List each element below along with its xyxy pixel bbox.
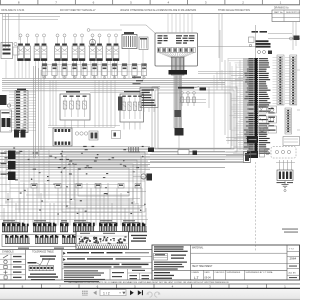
bottom terminal row B — [2, 235, 147, 249]
inset panel view — [76, 232, 129, 250]
terminal strip TB1 — [7, 66, 44, 158]
key switch S11 — [249, 25, 301, 58]
svg-text:DRAWING No: DRAWING No — [274, 7, 289, 10]
governor coil box K13 — [118, 77, 144, 123]
svg-text:2964: 2964 — [290, 257, 297, 261]
solenoid group L1 — [178, 87, 209, 109]
main harness ladder — [228, 58, 270, 154]
gauge M1 — [88, 39, 97, 46]
svg-text:SUPERSEDES: SUPERSEDES — [227, 272, 241, 274]
tolerance table — [28, 250, 63, 281]
svg-text:DRAWN: DRAWN — [192, 271, 200, 274]
diode pack D2 with ground — [276, 160, 295, 192]
sender unit B1 — [139, 37, 148, 80]
connector grid J1 — [273, 55, 297, 105]
title block — [152, 245, 300, 280]
resistor pack R1 — [87, 29, 137, 78]
svg-text:09-04: 09-04 — [205, 276, 212, 279]
flasher unit U3 — [14, 124, 121, 146]
legend box — [140, 88, 158, 113]
sender row B2-B11 — [42, 64, 147, 79]
svg-text:TOLERANCE TABLE: TOLERANCE TABLE — [32, 251, 54, 254]
ECU feed wires — [168, 14, 296, 62]
general notes — [62, 252, 152, 282]
svg-text:1 / 2: 1 / 2 — [103, 291, 110, 295]
svg-text:IONS ARE IN C.M.M.: IONS ARE IN C.M.M. — [1, 9, 25, 12]
control unit U1 — [120, 25, 262, 66]
sheet zone strip bottom — [0, 284, 300, 289]
svg-text:L.T: L.T — [194, 276, 199, 280]
power bus wires — [2, 30, 250, 135]
svg-text:A.A. BR: A.A. BR — [289, 272, 297, 275]
relay modules K11 K12 — [226, 136, 296, 158]
fuse box F1 — [1, 42, 19, 78]
svg-text:SYMBOLS: SYMBOLS — [2, 251, 14, 254]
svg-text:Y Y.X: Y Y.X — [289, 249, 294, 251]
coil box stubs — [48, 92, 150, 129]
property note row — [0, 280, 300, 284]
viewer toolbar — [0, 289, 300, 300]
connector J2 — [129, 147, 198, 181]
symbols legend table — [0, 250, 152, 281]
relay coil box K9 — [60, 91, 90, 120]
svg-text:THE DRAWING IS THE PROPERTY OF: THE DRAWING IS THE PROPERTY OF J.C.BAMFO… — [68, 281, 229, 284]
svg-text:DO NOT IDENTIFY MANUALLY: DO NOT IDENTIFY MANUALLY — [60, 9, 96, 12]
svg-text:PART No: PART No — [274, 11, 283, 14]
header notes row — [0, 9, 272, 14]
connector grid J4 — [285, 108, 292, 134]
svg-text:UNLESS OTHERWISE NOTED ALL DIM: UNLESS OTHERWISE NOTED ALL DIMENSIONS AR… — [120, 9, 197, 12]
wiring mesh — [0, 146, 250, 226]
sheet zone strip top — [0, 0, 300, 5]
wire bundle mid — [150, 152, 251, 163]
revision table — [272, 7, 301, 22]
wire feed left — [3, 14, 61, 48]
dashed wire drop — [255, 162, 257, 252]
svg-text:MATERIAL: MATERIAL — [192, 247, 204, 250]
fuse modules F2 — [1, 151, 16, 181]
relay bank K10 — [258, 106, 300, 146]
diode module D1 — [0, 95, 12, 132]
svg-text:HEAT TREATMENT: HEAT TREATMENT — [192, 265, 213, 268]
harness W1 — [169, 57, 188, 152]
drop wires — [50, 80, 115, 127]
svg-text:CHECKED: CHECKED — [215, 272, 225, 274]
side notes — [282, 229, 298, 233]
svg-text:DATE: DATE — [205, 271, 211, 274]
bottom terminal row A — [2, 220, 147, 232]
relay pairs K1-K12 — [17, 34, 119, 78]
frame harness loop — [152, 58, 300, 152]
svg-text:DESCRIPTION: DESCRIPTION — [286, 12, 300, 14]
svg-text:THIRD ANGLE PROJECTION: THIRD ANGLE PROJECTION — [218, 9, 250, 12]
svg-text:SUPERSEDED BY C.T.7082A: SUPERSEDED BY C.T.7082A — [246, 271, 274, 274]
